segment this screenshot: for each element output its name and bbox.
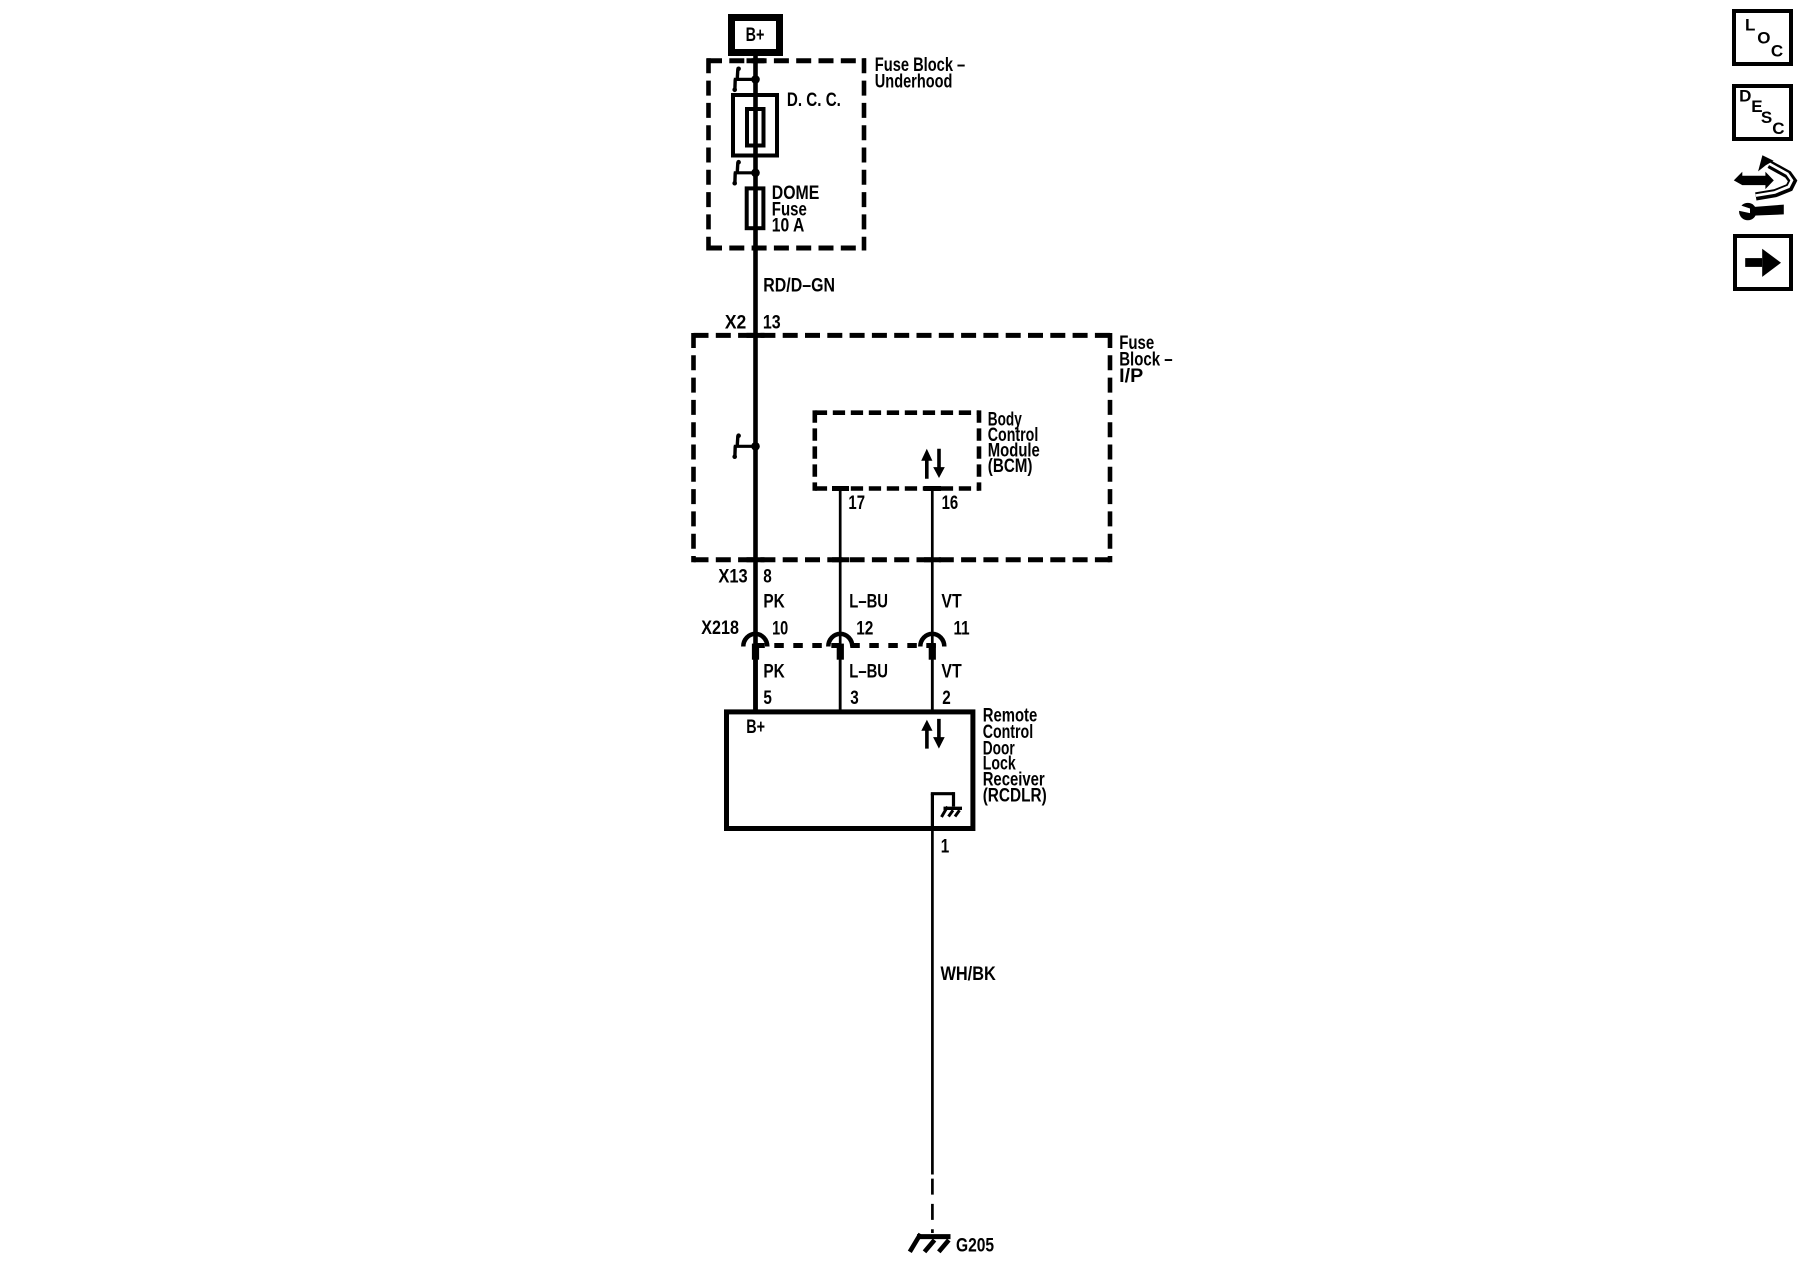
svg-text:10 A: 10 A [772,215,805,236]
dashed wire to G205 [931,1179,934,1233]
connector X13 pin 8 [718,567,771,588]
wire VT to RCDLR pin 2 [931,660,934,711]
ground G205 [910,1234,995,1257]
wire BCM pin 17 [839,489,842,712]
svg-text:8: 8 [763,567,772,588]
svg-text:G205: G205 [956,1236,994,1257]
svg-text:16: 16 [942,493,959,514]
svg-text:L–BU: L–BU [849,662,888,683]
svg-text:(RCDLR): (RCDLR) [983,786,1047,807]
svg-text:B+: B+ [746,25,765,46]
svg-text:Underhood: Underhood [875,71,953,92]
in-line connector X218 [701,618,970,659]
RCDLR pin labels 5 3 2 [763,688,950,709]
fuse DOME 10A [747,183,820,237]
connector cavity symbol 3 [732,433,759,459]
wire RCDLR pin 1 to ground [931,831,934,1175]
icon forward arrow box [1735,236,1791,289]
svg-text:S: S [1761,108,1772,127]
svg-text:VT: VT [941,662,962,683]
B+ power feed box [732,18,780,53]
svg-text:C: C [1771,41,1783,60]
connector X2 pin 13 [725,312,781,333]
svg-text:X13: X13 [718,567,747,588]
icon schematic reference (arrows and wrench) [1734,155,1793,220]
svg-text:X2: X2 [725,312,746,333]
svg-text:X218: X218 [701,618,739,639]
label fuse block I/P [1119,333,1172,387]
wire labels row 2 [763,662,962,683]
svg-text:L: L [1745,16,1755,35]
icon DESC box [1734,86,1791,139]
svg-text:D: D [1739,87,1751,106]
label body control module [988,409,1040,477]
wire B+ feed (main vertical) [753,56,758,711]
svg-text:PK: PK [763,591,785,612]
svg-text:B+: B+ [746,717,765,738]
BCM up/down arrows [921,449,945,479]
svg-text:10: 10 [772,619,788,640]
svg-text:2: 2 [942,688,951,709]
wire BCM pin 16 [931,489,934,712]
svg-text:5: 5 [763,688,772,709]
svg-text:1: 1 [941,836,950,857]
svg-text:RD/D–GN: RD/D–GN [763,276,835,297]
label RCDLR [983,706,1047,807]
svg-text:12: 12 [856,619,873,640]
icon LOC box [1734,11,1791,64]
svg-text:WH/BK: WH/BK [941,964,997,985]
svg-text:11: 11 [954,619,970,640]
remote control door lock receiver box [727,712,973,829]
svg-text:C: C [1772,119,1784,138]
body control module dashed box [815,410,979,490]
circuit breaker D.C.C. [733,90,841,156]
wire PK to RCDLR pin 5 [753,660,758,711]
svg-text:VT: VT [941,591,962,612]
svg-text:(BCM): (BCM) [988,456,1033,477]
wire labels row 1 [763,591,962,612]
fuse block underhood dashed box [707,58,866,250]
RCDLR internal ground [931,792,962,831]
svg-text:I/P: I/P [1119,366,1143,387]
svg-text:13: 13 [763,312,781,333]
RCDLR up/down arrows [921,719,944,749]
label fuse block underhood [875,55,965,93]
svg-text:D. C. C.: D. C. C. [787,90,841,111]
svg-text:3: 3 [850,688,859,709]
svg-text:L–BU: L–BU [849,591,888,612]
fuse block I/P dashed box [694,333,1111,562]
svg-text:PK: PK [763,662,785,683]
svg-text:17: 17 [848,493,865,514]
connector cavity symbol 2 [732,160,759,186]
wire L-BU to RCDLR pin 3 [839,660,842,711]
svg-text:O: O [1757,29,1770,48]
